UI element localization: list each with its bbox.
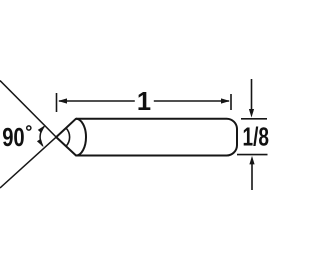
diameter dimension arrow down (251, 79, 253, 110)
length dimension extension tick right (230, 94, 232, 110)
length dimension extension tick left (56, 93, 58, 112)
angle dimension arc (40, 126, 44, 146)
length dimension line left segment (59, 100, 135, 102)
tip-angle extension line upper-left (0, 81, 56, 138)
length dimension arrowhead left (58, 98, 67, 103)
angle arc arrowhead upper (38, 125, 45, 133)
angle arc arrowhead lower (37, 139, 44, 147)
length dimension line right segment (154, 100, 229, 102)
diameter dimension arrow up (251, 163, 253, 190)
diameter extension line bottom (237, 154, 268, 156)
svg-text:1: 1 (137, 88, 151, 116)
cone base ellipse arc (76, 119, 86, 156)
angle dimension arc inside cone (66, 128, 70, 146)
diameter extension line top (241, 118, 267, 120)
tip-angle extension line lower-left (0, 137, 56, 188)
length dimension arrowhead right (221, 98, 230, 103)
svg-text:1/8: 1/8 (243, 124, 270, 152)
part outline: conical tip and cylindrical body (56, 119, 237, 156)
degree symbol (27, 126, 31, 130)
svg-text:90: 90 (2, 124, 25, 152)
